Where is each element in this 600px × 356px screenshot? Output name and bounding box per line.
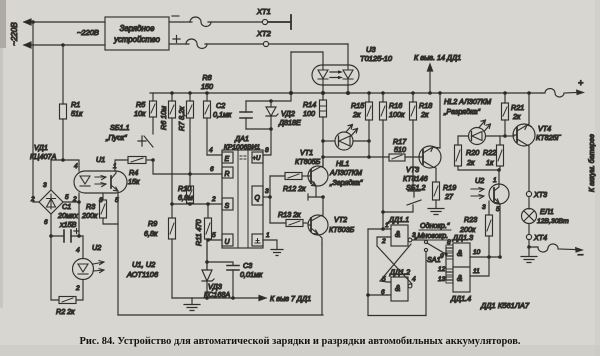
svg-text:11: 11 — [473, 268, 480, 275]
svg-text:R2 2к: R2 2к — [56, 307, 75, 316]
svg-text:10: 10 — [473, 249, 481, 256]
optocoupler U1 — [72, 155, 127, 204]
svg-text:6: 6 — [44, 219, 48, 226]
svg-text:200к: 200к — [459, 225, 476, 234]
svg-text:SА1: SА1 — [427, 255, 441, 264]
resistor R18 — [412, 93, 414, 189]
svg-text:150: 150 — [201, 82, 213, 91]
wire cross-couple a — [380, 244, 411, 282]
svg-text:С1: С1 — [62, 202, 71, 211]
wire XT2 to U3 — [269, 43, 348, 45]
svg-text:–: – — [577, 249, 584, 259]
svg-text:3: 3 — [43, 182, 47, 189]
svg-text:U3: U3 — [366, 45, 376, 54]
phototransistor U2 — [471, 176, 509, 213]
capacitor C2 — [245, 101, 247, 129]
svg-text:КЦ407А: КЦ407А — [30, 152, 56, 161]
wire U1 pin3 to R3 — [102, 193, 104, 200]
svg-text:устройство: устройство — [113, 35, 161, 44]
svg-text:U1: U1 — [96, 155, 105, 164]
junction dot — [77, 234, 81, 238]
svg-text:R16: R16 — [389, 101, 402, 110]
svg-text:R19: R19 — [443, 183, 456, 192]
svg-text:2: 2 — [75, 285, 80, 292]
svg-text:2к: 2к — [466, 158, 475, 167]
wire C1 node line — [51, 235, 83, 237]
wire C2 bottom line to DA1 pin8 — [246, 129, 271, 155]
svg-text:15к: 15к — [128, 177, 140, 186]
wire node A to DA1 pin6 — [153, 160, 222, 174]
svg-text:100к: 100к — [389, 110, 405, 119]
svg-text:АОТ1106: АОТ1106 — [126, 270, 159, 279]
wire VT2 emitter to bottom bus — [321, 244, 323, 315]
wire U2 collector up — [498, 170, 500, 184]
lamp EL1 — [522, 209, 537, 224]
resistor R17 — [389, 154, 405, 161]
svg-text:2к: 2к — [352, 110, 361, 119]
wire to R13 — [270, 222, 286, 224]
terminal XT2 — [263, 41, 268, 46]
svg-text:6,8к: 6,8к — [144, 229, 158, 238]
wire XT1 end bar — [268, 15, 291, 29]
svg-text:Т0125-10: Т0125-10 — [360, 54, 393, 63]
wire U2 emitter to R23 — [488, 201, 490, 215]
svg-text:U2: U2 — [92, 243, 101, 252]
switch SA1 — [424, 240, 446, 253]
wire U2 pin5 down to out line — [499, 204, 501, 257]
svg-text:HL1: HL1 — [336, 159, 349, 168]
terminal XT1 — [262, 19, 267, 24]
wire VT3 emitter to bus — [439, 93, 441, 148]
transistor VT3 — [419, 146, 441, 182]
svg-text:&: & — [395, 284, 400, 293]
svg-text:6,8м: 6,8м — [178, 193, 193, 202]
resistor R1 — [60, 104, 67, 119]
scan smudge top-left — [0, 0, 6, 48]
svg-text:R12 2к: R12 2к — [283, 184, 306, 193]
junction dot B — [61, 43, 65, 47]
diode bridge VD1 — [30, 182, 69, 226]
svg-text:510: 510 — [394, 145, 406, 154]
svg-text:U1, U2: U1, U2 — [132, 260, 156, 269]
break squiggle top — [190, 17, 211, 27]
wire latch bottom — [368, 315, 426, 317]
gate DD1.1 — [381, 222, 424, 246]
wire to R12 — [270, 175, 285, 177]
svg-text:4: 4 — [76, 247, 80, 254]
wire U2 LED top to C1 node — [82, 236, 84, 259]
wire SA1 lower contact rail — [425, 252, 427, 316]
svg-text:„Пуск“: „Пуск“ — [105, 133, 127, 142]
svg-text:0,1мк: 0,1мк — [213, 110, 232, 119]
terminal XT4 — [526, 234, 531, 239]
break squiggle bottom — [186, 39, 207, 49]
svg-text:VД2: VД2 — [281, 109, 295, 118]
svg-text:R5: R5 — [136, 100, 146, 109]
wire bridge top stub — [50, 160, 52, 190]
wire HL1 left — [323, 140, 335, 142]
svg-text:ДД1.4: ДД1.4 — [450, 294, 471, 303]
svg-text:КР1006ВИ1: КР1006ВИ1 — [224, 144, 261, 151]
wire bridge pin5 to pin2 rail — [63, 201, 79, 203]
optothyristor U3 — [312, 65, 359, 85]
wire R12 to VT1 base — [302, 175, 308, 177]
terminal XT3 — [526, 191, 531, 196]
svg-text:ХТ4: ХТ4 — [533, 233, 547, 242]
resistor R9 — [169, 218, 176, 239]
capacitor C3 — [227, 266, 239, 271]
wire left low rail to R2 — [51, 236, 59, 300]
ground line wire — [172, 297, 262, 299]
ground at R19 — [428, 200, 444, 215]
resistor R23 — [486, 215, 493, 236]
svg-text:ХТ1: ХТ1 — [256, 7, 271, 16]
svg-text:ДД1.1: ДД1.1 — [388, 215, 409, 224]
svg-text:ХТ2: ХТ2 — [256, 29, 272, 38]
svg-text:„Зарядка“: „Зарядка“ — [329, 178, 363, 187]
wire U1 pin5 down to bottom bus — [117, 195, 119, 315]
wire VT1 collector node line — [323, 156, 389, 158]
svg-text:+: + — [578, 78, 583, 88]
svg-text:R13 2к: R13 2к — [278, 210, 301, 219]
svg-text:4: 4 — [412, 276, 416, 283]
resistor R13 — [286, 220, 303, 227]
wire VD2 top line — [246, 52, 291, 101]
svg-text:R18: R18 — [419, 101, 432, 110]
resistor R4 — [128, 157, 146, 164]
svg-text:51к: 51к — [71, 109, 83, 118]
wire U3 LED feed — [291, 52, 323, 65]
wire latch left rail — [367, 229, 369, 316]
svg-text:R10: R10 — [178, 184, 191, 193]
svg-text:4: 4 — [209, 147, 213, 154]
resistor R2 — [59, 297, 76, 304]
wire R17 to VT3 base — [405, 156, 420, 158]
LED HL2 — [469, 120, 491, 145]
junction dot node A — [151, 158, 155, 162]
wire DA1 pin2 trigger line — [172, 203, 222, 205]
svg-text:&: & — [457, 274, 462, 283]
wire C3 branch — [207, 262, 233, 265]
resistor R3 — [100, 200, 107, 218]
wire charger plus out — [169, 43, 189, 45]
wire DD1.1 input1 — [368, 228, 387, 230]
wire node y160 to U1 pin4 — [51, 160, 79, 171]
wire gate input rail — [445, 248, 447, 280]
zener VD2 — [266, 101, 278, 129]
svg-text:Зарядное: Зарядное — [120, 24, 155, 33]
svg-text:&: & — [395, 230, 400, 239]
wire bridge bottom to C1 line — [50, 214, 52, 236]
wire cross-couple b — [377, 237, 412, 284]
wire VT4 base — [505, 135, 514, 137]
charger box U0 (Зарядное устройство) — [105, 17, 169, 50]
svg-text:SБ1.1: SБ1.1 — [110, 123, 129, 132]
wire DD1.2 input6 — [368, 294, 387, 296]
svg-text:VT4: VT4 — [538, 124, 551, 133]
resistor R14 — [322, 93, 324, 167]
svg-text:R1: R1 — [71, 100, 80, 109]
svg-text:R4: R4 — [129, 168, 138, 177]
svg-text:ДА1: ДА1 — [234, 134, 249, 143]
svg-text:2к: 2к — [420, 110, 429, 119]
wire rail through R1 — [62, 45, 64, 160]
wire XT4 to minus node — [528, 240, 530, 247]
optocoupler U2 LED — [73, 243, 105, 292]
svg-text:2: 2 — [381, 238, 386, 245]
svg-text:R9: R9 — [148, 219, 157, 228]
wire U3 thyristor from XT2 — [347, 44, 349, 93]
svg-text:К аккум. батарее: К аккум. батарее — [588, 134, 596, 192]
svg-text:„Многокр.: „Многокр. — [414, 231, 448, 240]
svg-text:х15В: х15В — [59, 220, 77, 229]
svg-text:VT3: VT3 — [406, 165, 419, 174]
bus squiggle to battery plus — [542, 89, 577, 98]
svg-text:К выв 7 ДД1: К выв 7 ДД1 — [270, 294, 311, 303]
zener VD3 — [202, 270, 214, 298]
wire R9 bottom to ground line — [171, 239, 173, 298]
wire DA1 out vertical — [269, 176, 271, 223]
svg-text:5: 5 — [382, 276, 386, 283]
wire DA1 pin4 — [207, 154, 222, 156]
svg-text:КТ8146: КТ8146 — [403, 174, 428, 183]
resistor R5 — [152, 93, 154, 101]
minus mark at charger output — [172, 15, 179, 17]
svg-text:3: 3 — [265, 188, 269, 195]
svg-text:К выв. 14 ДД1: К выв. 14 ДД1 — [414, 53, 461, 62]
wire R4 to node A — [146, 159, 153, 161]
svg-text:ХТ3: ХТ3 — [533, 190, 547, 199]
svg-text:5: 5 — [496, 206, 500, 213]
resistor R22 — [497, 145, 504, 166]
svg-text:2к: 2к — [512, 112, 521, 121]
resistor R15 — [368, 93, 370, 157]
svg-text:+U: +U — [253, 156, 262, 162]
wire R13 to VT2 base — [303, 222, 308, 224]
switch SB1.1 — [105, 117, 153, 147]
svg-text:R20: R20 — [466, 148, 479, 157]
node 220V input arrows — [24, 19, 105, 48]
svg-text:4: 4 — [74, 163, 78, 170]
junction dot — [49, 234, 53, 238]
svg-text:S: S — [225, 203, 230, 210]
arrow to DD1 pin7 — [259, 295, 266, 300]
ground symbol — [184, 298, 200, 311]
svg-text:9: 9 — [440, 253, 444, 260]
resistor R12 — [285, 173, 302, 180]
svg-text:HL2 АЛ307КМ: HL2 АЛ307КМ — [444, 97, 491, 106]
svg-text:КТ825Г: КТ825Г — [536, 133, 562, 142]
wire U3 LED cathode to bus — [322, 85, 324, 93]
junction dot — [61, 158, 65, 162]
wire DD1.4 output11 — [470, 257, 489, 276]
wire U1 pin2 down — [78, 193, 80, 236]
svg-text:1к: 1к — [486, 158, 494, 167]
svg-text:АЛ307КМ: АЛ307КМ — [329, 168, 362, 177]
svg-text:R8: R8 — [202, 73, 211, 82]
svg-text:Q: Q — [255, 195, 261, 202]
svg-text:5: 5 — [212, 232, 216, 239]
svg-text:1: 1 — [493, 177, 497, 184]
wire to XT1 — [208, 21, 262, 23]
svg-text:27: 27 — [444, 192, 454, 201]
svg-text:R15: R15 — [351, 101, 365, 110]
svg-text:20мкх: 20мкх — [57, 211, 78, 220]
wire U1 pin1 up to R4 — [115, 160, 128, 171]
transistor VT2 — [308, 215, 328, 244]
ground at DA1 pin1 — [271, 250, 283, 256]
wire VT4 emitter to bus — [528, 93, 530, 124]
svg-text:КТ605Б: КТ605Б — [295, 157, 321, 166]
svg-text:~220В: ~220В — [10, 22, 19, 46]
svg-text:E: E — [225, 156, 230, 163]
svg-text:R21: R21 — [511, 103, 524, 112]
svg-text:13: 13 — [438, 276, 446, 283]
svg-text:КТ503Б: КТ503Б — [329, 225, 355, 234]
arrow to DD1 pin14 — [427, 64, 432, 93]
plus mark at charger output — [173, 36, 180, 43]
resistor R19 — [433, 182, 440, 200]
ground under XT4 — [521, 247, 537, 263]
transistor VT4 — [513, 124, 535, 146]
wire R3 bottom to emitter rail — [103, 218, 118, 224]
svg-text:1: 1 — [266, 232, 270, 239]
svg-text:„Разрядка“: „Разрядка“ — [443, 107, 480, 116]
wire VT4 collector down — [528, 146, 530, 191]
IC DA1 KR1006VI1 — [222, 150, 263, 248]
svg-text:2: 2 — [30, 196, 35, 203]
svg-text:2: 2 — [211, 196, 216, 203]
svg-text:R23: R23 — [464, 215, 477, 224]
junction dot A — [31, 20, 35, 24]
wire pin5 node down — [206, 240, 208, 270]
svg-text:100: 100 — [303, 109, 315, 118]
gate DD1.3 DD1.4 block — [438, 239, 470, 292]
resistor R7 — [189, 93, 191, 186]
svg-text:12В,30Вт: 12В,30Вт — [537, 218, 569, 225]
svg-text:VT2: VT2 — [334, 215, 347, 224]
svg-text:0,01мк: 0,01мк — [240, 270, 263, 279]
svg-text:R11 470: R11 470 — [194, 219, 203, 246]
main +9V bus wire — [150, 92, 542, 94]
resistor R21 — [504, 93, 506, 136]
svg-text:8: 8 — [265, 147, 269, 154]
junction dot — [77, 200, 81, 204]
wire DA1 pin3 out — [263, 196, 270, 198]
resistor R11 — [207, 204, 209, 240]
resistor R6 — [171, 93, 173, 218]
svg-text:VT1: VT1 — [300, 148, 313, 157]
wire R23 bottom — [488, 236, 490, 257]
svg-text:R6 10м: R6 10м — [159, 106, 168, 130]
wire R2 to U2 LED — [76, 280, 83, 300]
svg-text:С2: С2 — [216, 101, 225, 110]
wire DA1 pin1 to ground — [263, 240, 277, 249]
wire charger minus out — [169, 21, 192, 23]
transistor VT1 — [308, 157, 328, 197]
svg-text:ДД1.3: ДД1.3 — [452, 233, 473, 242]
svg-text:VД1: VД1 — [34, 143, 48, 152]
svg-text:~220В: ~220В — [77, 28, 99, 37]
wire to XT4 — [528, 224, 530, 235]
svg-text:Рис. 84. Устройство для автома: Рис. 84. Устройство для автоматической з… — [80, 336, 521, 347]
svg-text:R3: R3 — [86, 202, 95, 211]
svg-text:R14: R14 — [303, 100, 316, 109]
svg-text:Д818Е: Д818Е — [278, 118, 301, 127]
svg-text:R: R — [225, 171, 230, 178]
svg-text:200к: 200к — [81, 211, 98, 220]
svg-text:10к: 10к — [134, 109, 146, 118]
wire VT1 emitter to VT2 collector — [308, 194, 323, 215]
svg-text:8: 8 — [447, 239, 451, 246]
svg-text:Однокр.“: Однокр.“ — [420, 221, 450, 230]
svg-text:5: 5 — [65, 194, 69, 201]
svg-text:R22: R22 — [483, 148, 496, 157]
svg-text:12: 12 — [438, 266, 446, 273]
resistor R16 — [382, 93, 384, 229]
svg-text:&: & — [457, 249, 462, 258]
resistor R20 — [455, 145, 462, 166]
resistor R8 — [206, 93, 208, 155]
wire HL1 right — [353, 140, 369, 142]
wire R22 top to base node — [499, 136, 501, 145]
svg-text:3: 3 — [482, 204, 486, 211]
svg-text:R7 8,2к: R7 8,2к — [177, 106, 186, 131]
wire R20 R22 bottoms joined — [458, 166, 500, 170]
svg-text:U2: U2 — [475, 176, 484, 185]
svg-text:6: 6 — [210, 166, 214, 173]
bottom bus wire — [118, 314, 323, 316]
svg-text:ДД1 К561ЛА7: ДД1 К561ЛА7 — [480, 301, 530, 310]
gate DD1.2 — [381, 276, 416, 301]
wire DA1 pin5 line — [207, 239, 222, 241]
svg-text:ДД1.2: ДД1.2 — [389, 268, 410, 277]
wire left rail 220V a — [33, 22, 39, 202]
wire DD1.3 output10 — [470, 256, 500, 258]
wire HL2 right to base node — [486, 135, 506, 137]
LED HL1 — [335, 125, 358, 151]
wire minus squiggle to battery — [529, 244, 575, 252]
wire to XT2 — [205, 43, 263, 45]
switch SB1.2 — [383, 191, 421, 212]
resistor R10 — [187, 186, 194, 203]
svg-text:С3: С3 — [243, 261, 252, 270]
wire to EL1 — [528, 197, 530, 209]
capacitor C1 — [64, 230, 71, 242]
svg-text:EЛ1: EЛ1 — [540, 207, 554, 216]
wire HL2 left to R20 — [458, 136, 469, 145]
